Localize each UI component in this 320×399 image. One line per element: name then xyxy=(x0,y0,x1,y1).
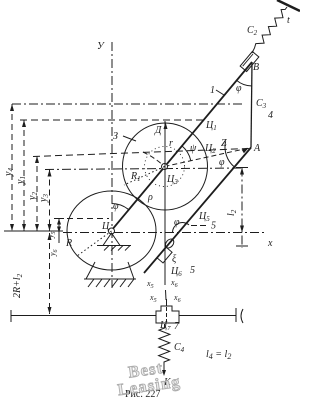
spring C2 xyxy=(252,7,287,53)
Y axis xyxy=(111,42,113,288)
slider 5 xyxy=(157,247,172,263)
svg-text:r: r xyxy=(169,138,173,149)
svg-text:Z: Z xyxy=(221,138,227,149)
svg-text:φ: φ xyxy=(113,201,119,212)
angle arc phi at lower center xyxy=(112,204,129,210)
link 1 (crank O-B) xyxy=(111,62,252,231)
gear 3 circle (upper) xyxy=(123,123,208,210)
angle arc phi at X crossing xyxy=(173,222,190,232)
radius R1 dotted xyxy=(124,167,165,186)
svg-text:1: 1 xyxy=(210,85,215,96)
radius R dotted xyxy=(77,231,112,256)
dimension 2R+l2 vertical x=49.5 xyxy=(12,233,52,314)
bottom line right paren mark xyxy=(241,309,243,323)
dashed construction line center to A xyxy=(165,148,252,167)
dimension y4 vertical x=12 xyxy=(3,104,15,231)
arrow to K xyxy=(162,370,166,376)
psi angle arc at center xyxy=(182,146,191,161)
pin on link 2 xyxy=(164,237,176,249)
angle arc phi at A xyxy=(225,141,234,167)
pivot base line xyxy=(97,245,131,247)
leader line L5 y=218.5 xyxy=(57,218,109,220)
leader line L1 y=104 xyxy=(12,103,243,105)
svg-text:Д: Д xyxy=(154,125,162,136)
bottom line left tick xyxy=(10,310,12,322)
link 2 (rod A-slider) xyxy=(144,148,251,274)
dimension y3 vertical x=49.5 xyxy=(38,170,52,232)
svg-text:З: З xyxy=(113,131,118,142)
pivot hatching xyxy=(104,246,130,251)
rod 4 (B-A) xyxy=(251,62,252,148)
slider at B xyxy=(240,51,259,71)
svg-text:φ: φ xyxy=(219,157,225,168)
svg-text:φ: φ xyxy=(236,83,242,94)
svg-text:ρ: ρ xyxy=(147,192,153,203)
X axis xyxy=(63,232,266,234)
leader line L2 y=120 xyxy=(20,119,204,121)
dash and label 5 xyxy=(191,225,208,227)
svg-text:t: t xyxy=(287,15,290,26)
wheel circle (lower) xyxy=(67,191,156,270)
dimension baseline left xyxy=(4,230,63,232)
watermark Best Leasing xyxy=(114,356,182,399)
svg-text:ξ: ξ xyxy=(172,254,177,265)
dashed arc through gear center xyxy=(143,152,165,167)
leader line L4 y=169.5 xyxy=(45,168,242,170)
dimension y2 vertical x=37 xyxy=(27,156,39,231)
pitch circle r dotted xyxy=(145,147,185,187)
svg-text:4: 4 xyxy=(268,110,273,121)
lower wheel center pin xyxy=(109,228,115,234)
vertical guide line xyxy=(164,121,166,285)
svg-text:В: В xyxy=(253,62,259,73)
wall anchor top right xyxy=(277,0,300,11)
dimension l2 right xyxy=(226,168,248,249)
spring C4 xyxy=(159,324,170,371)
dimension y1 vertical x=24 xyxy=(15,120,27,231)
gear center pin xyxy=(162,164,168,170)
angle arc phi at B xyxy=(237,80,252,86)
support hatching xyxy=(88,279,134,287)
svg-text:5: 5 xyxy=(190,265,195,276)
svg-text:ψ: ψ xyxy=(190,143,197,154)
dimension y5 y6 bracket x=59 xyxy=(46,219,64,258)
bottom line right tick xyxy=(235,308,237,322)
piston 7 cross xyxy=(156,306,179,323)
svg-text:А: А xyxy=(253,143,261,154)
support pedestal xyxy=(84,262,136,279)
svg-text:R: R xyxy=(65,238,72,249)
svg-text:φ: φ xyxy=(174,217,180,228)
leader line L3 to A xyxy=(33,149,249,157)
svg-text:5: 5 xyxy=(211,221,216,232)
fixed pivot triangle xyxy=(103,233,120,246)
bottom datum line xyxy=(11,315,156,317)
svg-text:Ц: Ц xyxy=(101,221,110,232)
svg-text:x: x xyxy=(267,238,273,249)
